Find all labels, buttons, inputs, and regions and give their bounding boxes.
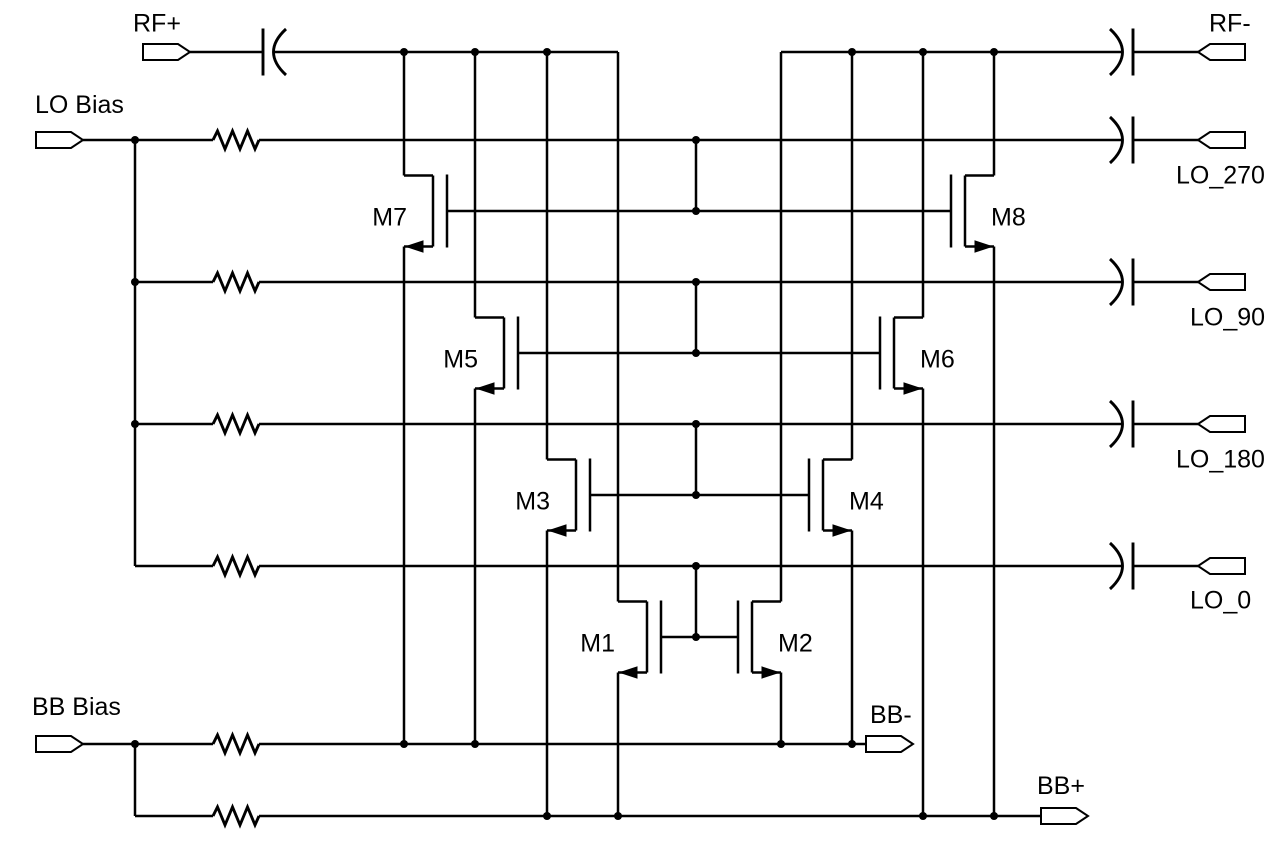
svg-text:M8: M8 [991,204,1026,232]
wire: M6 source [922,389,925,817]
wire: M2 source [780,673,783,745]
svg-text:M3: M3 [515,488,550,516]
wire: BB bias column [134,744,137,816]
junction: LO_90 row / gate stub [692,278,700,286]
wire: M7 source [403,247,406,745]
port BB- [866,736,913,752]
port LO Bias [36,132,83,148]
wire: RF- rail [781,51,1122,54]
wire: LO_180 row [259,423,1122,426]
svg-text:M4: M4 [849,488,884,516]
wire: M1 drain [617,52,620,602]
wire: C2 to RF- port [1133,51,1198,54]
wire: LO_0 gate stub [695,566,698,637]
junction: gate rail (y=211) / stub [692,207,700,215]
wire: LO bias distribution column [134,140,137,566]
junction: M6 source / BB+ row [919,812,927,820]
port LO_180 [1198,416,1245,432]
svg-text:LO_180: LO_180 [1176,446,1265,474]
wire: M3 source [546,531,549,817]
junction: LO_270 row / gate stub [692,136,700,144]
port BB Bias [36,736,83,752]
wire: M7-M8 gate rail [447,210,951,213]
wire: bias column to R2 [135,281,213,284]
junction: M2 source / BB- row [777,740,785,748]
port LO_90 [1198,274,1245,290]
junction: LO bias column / LO_180 row [131,420,139,428]
transistor M3 (NMOS) [547,459,590,537]
junction: LO_180 row / gate stub [692,420,700,428]
wire: M5-M6 gate rail [518,352,880,355]
capacitor C2 (RF- coupling) [1132,29,1135,76]
wire: LO_270 gate stub [695,140,698,211]
junction: M8 source / BB+ row [990,812,998,820]
svg-text:BB+: BB+ [1037,772,1085,800]
capacitor C5 (LO_180 coupling) [1132,401,1135,448]
wire: RF+ rail [273,51,618,54]
junction: M3 source / BB+ row [543,812,551,820]
junction: RF- rail / M4 drain [848,48,856,56]
capacitor C4 (LO_90 coupling) [1132,259,1135,306]
port BB+ [1041,808,1088,824]
wire: M1 source [617,673,620,817]
junction: LO_0 row / gate stub [692,562,700,570]
wire: M7 drain [403,52,406,176]
junction: BB bias column / BB- row [131,740,139,748]
transistor M5 (NMOS) [475,317,518,395]
junction: gate rail (y=637) / stub [692,633,700,641]
transistor M6 (NMOS) [880,317,923,395]
wire: bias column to R3 [135,423,213,426]
wire: LO_90 gate stub [695,282,698,353]
resistor R1 (LO_270 bias) [213,131,259,149]
transistor M7 (NMOS) [404,175,447,253]
svg-text:M2: M2 [778,630,813,658]
wire: C3 to LO_270 port [1133,139,1198,142]
capacitor C6 (LO_0 coupling) [1132,543,1135,590]
wire: M8 source [993,247,996,817]
port RF+ [143,44,190,60]
wire: RF+ port to C1 [190,51,264,54]
wire: M4 source [851,531,854,745]
junction: M1 source / BB+ row [614,812,622,820]
wire: M1-M2 gate rail [661,636,738,639]
wire: M6 drain [922,52,925,318]
resistor R2 (LO_90 bias) [213,273,259,291]
junction: RF- rail / M6 drain [919,48,927,56]
capacitor C1 (RF+ coupling) [262,29,265,76]
wire: C6 to LO_0 port [1133,565,1198,568]
wire: BB- row [259,743,866,746]
wire: bias column to R4 [135,565,213,568]
svg-text:M7: M7 [372,204,407,232]
port LO_0 [1198,558,1245,574]
junction: RF+ rail / M3 drain [543,48,551,56]
wire: M8 drain [993,52,996,176]
wire: M2 drain [780,52,783,602]
svg-text:BB-: BB- [870,701,912,729]
junction: RF+ rail / M5 drain [471,48,479,56]
resistor R6 (BB+ bias) [213,807,259,825]
svg-text:LO_90: LO_90 [1190,304,1265,332]
transistor M1 (NMOS) [618,601,661,679]
svg-text:LO_270: LO_270 [1176,162,1265,190]
transistor M8 (NMOS) [951,175,994,253]
wire: M5 source [474,389,477,745]
wire: M3-M4 gate rail [590,494,809,497]
junction: LO bias column / LO_270 row [131,136,139,144]
wire: LO Bias port to R1 [83,139,213,142]
junction: LO bias column / LO_90 row [131,278,139,286]
wire: M4 drain [851,52,854,460]
svg-text:LO Bias: LO Bias [35,91,124,119]
junction: RF- rail / M8 drain [990,48,998,56]
wire: BB+ row [259,815,1041,818]
wire: LO_270 row [259,139,1122,142]
resistor R5 (BB- bias) [213,735,259,753]
junction: M5 source / BB- row [471,740,479,748]
wire: BB Bias port to R5 [83,743,213,746]
resistor R3 (LO_180 bias) [213,415,259,433]
port LO_270 [1198,132,1245,148]
junction: gate rail (y=353) / stub [692,349,700,357]
wire: LO_90 row [259,281,1122,284]
wire: bias column to R6 [135,815,213,818]
svg-text:M1: M1 [580,630,615,658]
junction: gate rail (y=495) / stub [692,491,700,499]
wire: M5 drain [474,52,477,318]
svg-text:M5: M5 [443,346,478,374]
capacitor C3 (LO_270 coupling) [1132,117,1135,164]
junction: M7 source / BB- row [400,740,408,748]
resistor R4 (LO_0 bias) [213,557,259,575]
svg-text:RF+: RF+ [133,10,181,38]
wire: C5 to LO_180 port [1133,423,1198,426]
junction: M4 source / BB- row [848,740,856,748]
wire: C4 to LO_90 port [1133,281,1198,284]
svg-text:M6: M6 [920,346,955,374]
junction: RF+ rail / M7 drain [400,48,408,56]
svg-text:LO_0: LO_0 [1190,587,1251,615]
wire: LO_180 gate stub [695,424,698,495]
svg-text:BB Bias: BB Bias [32,693,121,721]
svg-text:RF-: RF- [1209,10,1251,38]
wire: LO_0 row [259,565,1122,568]
transistor M2 (NMOS) [738,601,781,679]
wire: M3 drain [546,52,549,460]
port RF- [1198,44,1245,60]
transistor M4 (NMOS) [809,459,852,537]
